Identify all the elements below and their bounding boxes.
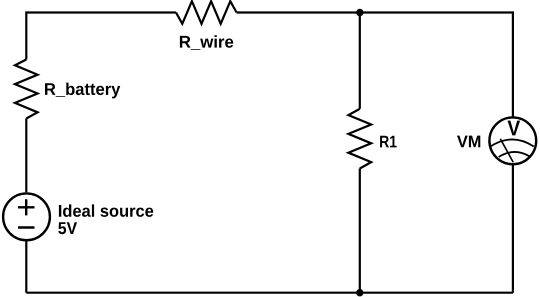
source minus sign: [18, 226, 35, 228]
wire R_battery to source: [25, 119, 27, 193]
wire bottom: [26, 292, 513, 294]
label R1: [380, 136, 397, 148]
wire right vertical upper: [512, 11, 514, 117]
label R_wire: [180, 35, 233, 49]
wire middle branch upper: [359, 13, 361, 109]
voltmeter scale arc lower: [499, 152, 530, 157]
wire R_wire to top-right corner: [237, 11, 513, 13]
wire voltmeter to bottom-right corner: [512, 165, 514, 293]
node junction bottom: [356, 289, 363, 296]
source plus sign: [18, 199, 35, 215]
wire middle branch lower: [359, 169, 361, 293]
label Ideal source: [59, 204, 153, 217]
wire top-left to R_wire: [26, 11, 176, 13]
voltmeter V letter: [508, 121, 521, 136]
voltmeter needle: [500, 139, 513, 163]
voltmeter VM circle: [489, 117, 536, 164]
label 5V: [58, 222, 77, 234]
node junction top: [356, 9, 363, 16]
resistor R_wire: [176, 1, 237, 24]
voltmeter scale arc upper: [491, 139, 534, 146]
wire source to bottom-left corner: [25, 240, 27, 293]
label R_battery: [45, 83, 120, 99]
label VM: [457, 136, 480, 148]
resistor R_battery: [15, 60, 38, 119]
voltage source V1 circle: [3, 193, 50, 240]
wire left vertical upper: [25, 11, 27, 59]
resistor R1: [348, 109, 371, 169]
